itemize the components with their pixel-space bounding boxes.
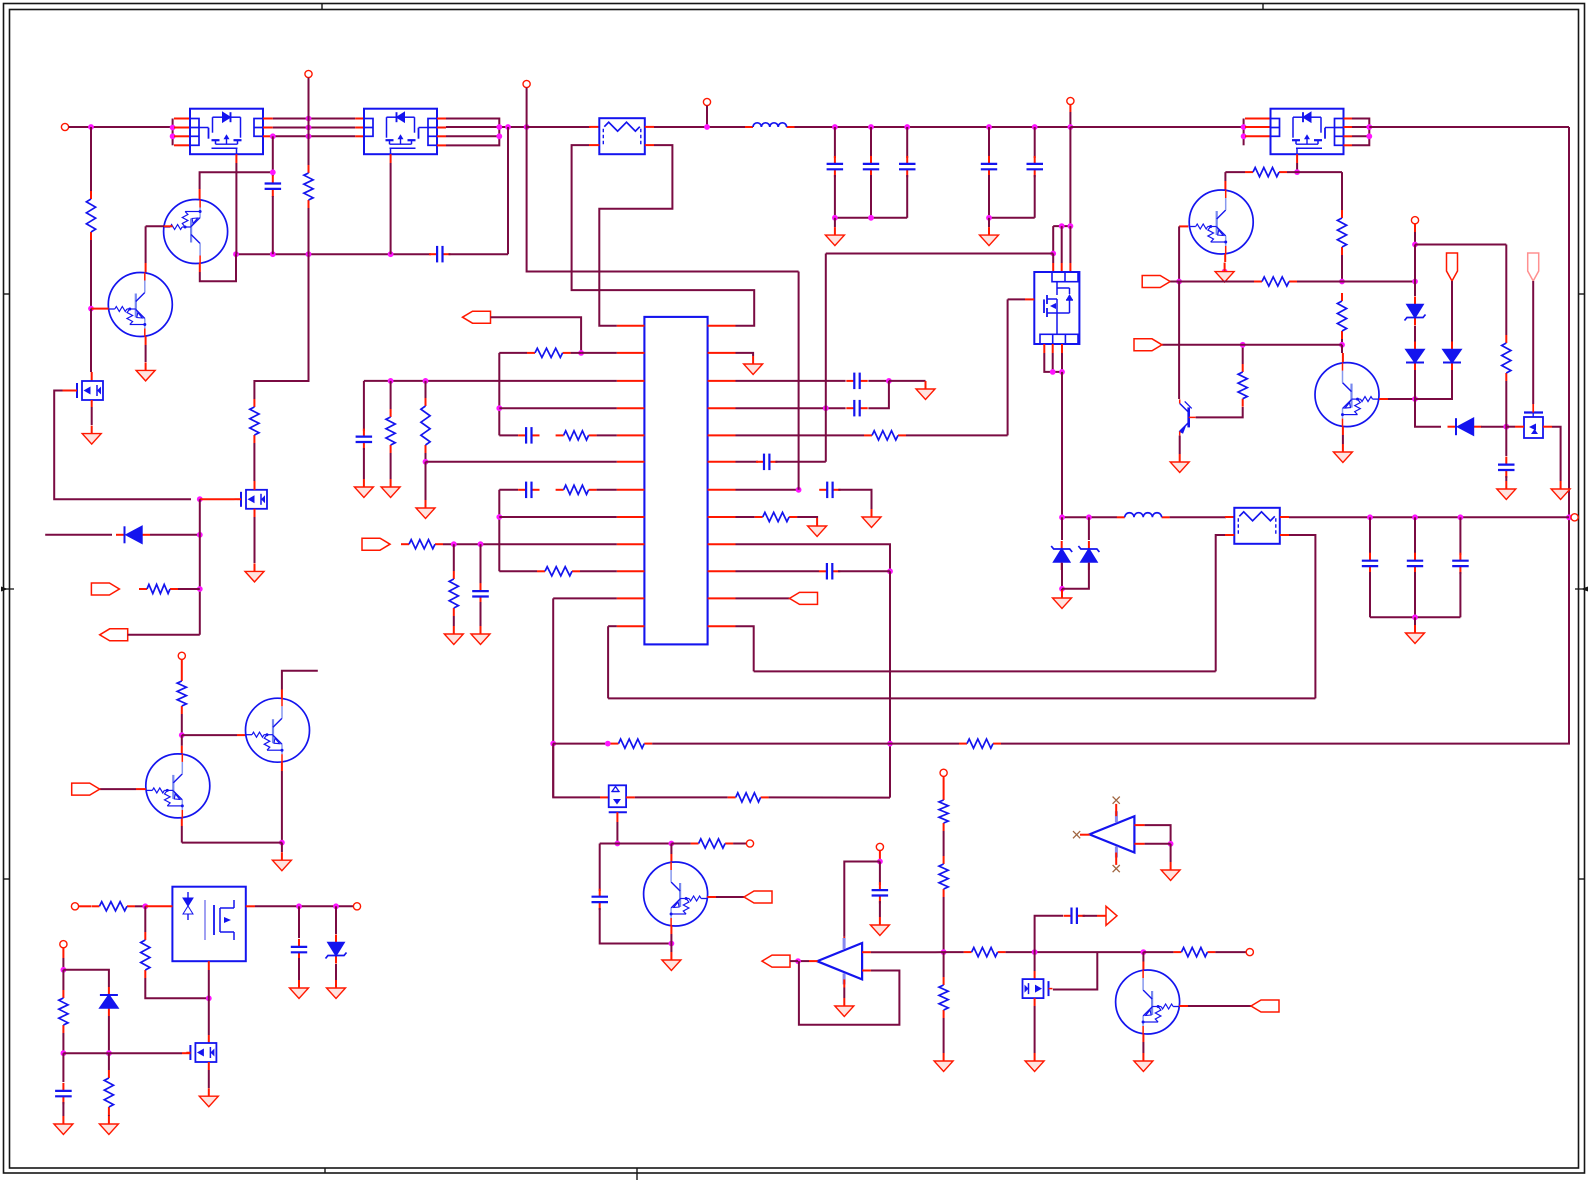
wire 425.5 col b — [425, 453, 427, 462]
junction 308.5,254.2 — [306, 251, 312, 257]
resistor R425 — [421, 398, 430, 453]
U4 right pin stubs — [1344, 118, 1353, 120]
wire 707 term down — [706, 106, 708, 127]
border tick bottom 2 — [636, 1168, 638, 1180]
wire 308 down then left to 254.4,381 — [254, 254, 308, 399]
connector left-point y598 — [790, 592, 818, 604]
Q6 collector stub — [1142, 962, 1144, 971]
IC U6 left pin stub y352 — [617, 352, 645, 354]
capacitor Co2 — [1452, 553, 1469, 574]
capacitor C462R — [756, 454, 777, 471]
OP2 in+ stub — [1134, 824, 1144, 826]
wire pin435R a — [736, 434, 865, 436]
wire 63-109 branch — [63, 970, 109, 987]
junction 499.3,517 — [496, 514, 502, 520]
wire pin598L — [553, 597, 617, 599]
wire R3b to dots — [443, 543, 617, 545]
zener D7 — [1051, 541, 1072, 570]
ground zeners — [1053, 590, 1072, 609]
wire capbank2-1 bottom — [1034, 175, 1036, 218]
junction 1415,244.5 — [1412, 242, 1418, 248]
M4 source stub — [1034, 998, 1036, 1006]
wire D5 to dot — [1481, 426, 1506, 428]
Q8 emitter stub — [1224, 254, 1226, 262]
junction 1460.4,517.3 — [1458, 514, 1464, 520]
stub under terminal 181.8 — [181, 659, 183, 673]
IC U6 left pin stub y544 — [617, 543, 645, 545]
wire U4 right row127 — [1352, 126, 1369, 128]
wire 363.9 col b — [363, 448, 365, 479]
wire U2 row118 to bracket — [446, 119, 499, 146]
diode D6 — [100, 987, 118, 1016]
U5 top pin stubs — [1052, 263, 1054, 272]
junction 825.8,408.2 — [823, 405, 829, 411]
wire 842 down to ground — [281, 843, 283, 852]
wire R24 to dot — [1341, 255, 1343, 282]
junction 308.5,118.5 — [306, 116, 312, 122]
resistor R390 — [386, 409, 395, 453]
stub 63 terminal — [62, 948, 64, 958]
U5 bottom pin stubs — [1043, 344, 1045, 353]
U4 source stub bottom — [1296, 154, 1298, 163]
capacitor C880 — [872, 882, 889, 903]
resistor R14 — [91, 902, 135, 911]
U1 right pin stubs — [263, 118, 273, 120]
junction 1034.6,952.1 — [1032, 949, 1038, 955]
capbank2 bottom rail — [989, 217, 1035, 219]
IC U6 left pin stub y380 — [617, 380, 645, 382]
ground Q2 emitter — [136, 362, 155, 381]
transistor Q6 — [1116, 970, 1180, 1034]
junction 607.8,743.6 — [605, 741, 611, 747]
wire T2 bl to bus671 — [1216, 535, 1225, 671]
wire y281 rail b — [1297, 281, 1415, 283]
Q7 emitter stub — [1342, 427, 1344, 435]
wire 499 vert A — [498, 353, 500, 436]
wire U4 source down — [1296, 163, 1298, 172]
wire 299 down — [298, 906, 300, 938]
ground OP1 — [835, 998, 854, 1017]
IC U6 right pin stub y626 — [708, 625, 736, 627]
U1 left pin stubs — [174, 118, 190, 120]
M2 source stub — [208, 1062, 210, 1070]
junction 798,961.1 — [795, 958, 801, 964]
wire J-b down — [1532, 281, 1534, 404]
bus to U4 bracket — [1070, 126, 1243, 128]
junction 907.2,127 — [904, 124, 910, 130]
M1 drain stub top — [254, 481, 256, 490]
terminal 880,847 — [876, 843, 883, 850]
wire capbank2-0 bottom — [988, 175, 990, 218]
ground 425.5 — [416, 500, 435, 519]
Q6 base stub — [1179, 1005, 1188, 1007]
M6 protection device top plate — [1524, 411, 1543, 413]
OP2 bottom stub — [1115, 853, 1117, 865]
resistor R30 — [959, 739, 1001, 748]
bus L1 to caps — [795, 126, 1071, 128]
wire 336 to gnd — [335, 964, 337, 980]
junction 281.9,842.6 — [279, 840, 285, 846]
junction 453.8,544.2 — [451, 541, 457, 547]
terminal opto left — [71, 903, 78, 910]
M5 drain stub — [91, 372, 93, 381]
wire C381R to dot — [868, 380, 889, 382]
wire 952 b — [944, 951, 964, 953]
wire 825.8 vert — [825, 254, 827, 462]
ground Q5 — [662, 952, 681, 971]
wire 526 term down — [526, 88, 528, 127]
junction 499.3,127 — [496, 124, 502, 130]
wire M6 right gnd — [1552, 427, 1561, 481]
wire R6 to pin435 — [597, 434, 617, 436]
resistor R4 — [449, 571, 458, 616]
wire capbank2-0 top — [988, 127, 990, 158]
junction 890,571.3 — [887, 568, 893, 574]
wire R34 to 1007 — [906, 434, 1008, 436]
wire 145 to 998 rail — [145, 978, 209, 998]
capacitor C599 — [592, 889, 609, 910]
resistor R19 — [939, 856, 948, 897]
junction 581.1,352.9 — [578, 350, 584, 356]
terminal at 308,74 — [305, 70, 312, 77]
junction 1179.1,281.5 — [1176, 279, 1182, 285]
Q3 collector stub — [281, 690, 283, 699]
wire 1415 e — [1415, 399, 1441, 427]
wire pin408R a — [736, 407, 846, 409]
optocoupler U3 internals — [183, 898, 193, 906]
wire R28 to dot — [1242, 345, 1244, 364]
IC U6 left pin stub y435 — [617, 434, 645, 436]
wire 1053 bottom — [1052, 353, 1054, 372]
zener D8 — [1078, 541, 1099, 570]
junction 1369.3,136.3 — [1366, 133, 1372, 139]
terminal J1 left input — [61, 123, 68, 130]
wire M2 source down — [208, 1070, 210, 1088]
wire outcap1 top — [1414, 517, 1416, 555]
wire opto right to terminal — [255, 905, 353, 907]
inductor L1 — [745, 123, 795, 127]
capacitor C on 254 rail — [429, 246, 450, 263]
capacitor C363 — [356, 429, 373, 450]
T1 bottom-right stub — [645, 144, 654, 146]
wire U4 right row136 — [1352, 135, 1369, 137]
junction 871,127 — [868, 124, 874, 130]
wire R22 to term — [1215, 951, 1246, 953]
U1 left bracket wire — [172, 119, 174, 146]
wire pin381L rail — [364, 380, 617, 382]
Q5 collector stub — [670, 854, 672, 863]
junction 834.9,127 — [832, 124, 838, 130]
wire rail 843 — [600, 843, 672, 845]
wire D1 left end — [45, 534, 112, 536]
transistor Q2 — [108, 273, 172, 337]
wire OP1 out to conn junction — [798, 960, 809, 962]
wire R3 to M1 drain — [253, 443, 255, 481]
wire 390.6 col b — [390, 453, 392, 479]
ground M1 source — [245, 563, 264, 582]
junction Q8 emitter gnd — [1222, 269, 1228, 275]
stub 880 term — [879, 851, 881, 862]
bus U2 to T1 — [527, 126, 591, 128]
wire Q6 collector — [1142, 952, 1144, 961]
M6 right stub — [1543, 426, 1552, 428]
diode D2 — [1406, 342, 1424, 371]
resistor R15 — [141, 932, 150, 978]
capacitor C490L — [518, 482, 539, 499]
wire y244 rail — [1415, 244, 1506, 246]
wire 952 to R22 — [1143, 951, 1173, 953]
wire 308 between rows — [308, 119, 310, 166]
wire Q9 emitter gnd — [1179, 436, 1181, 455]
wire R1 to Q2 base junction — [90, 240, 92, 309]
junction 508,127 — [505, 124, 511, 130]
terminal opto right — [353, 903, 360, 910]
opto left pin stub — [145, 905, 172, 907]
transistor Q1 — [164, 200, 228, 264]
opto bottom pin stub — [208, 961, 210, 970]
wire 425.5 col — [425, 381, 427, 398]
Q2 emitter stub — [145, 337, 147, 346]
wire U2 row136 to bracket — [446, 135, 499, 137]
ground OP2 — [1161, 862, 1180, 881]
junction 1242.7,344.8 — [1240, 342, 1246, 348]
ground Q8 — [1215, 263, 1234, 283]
connector right-point y344 — [1134, 339, 1162, 351]
wire Q7 coll link — [1341, 345, 1343, 353]
junction 1415,281.5 — [1412, 279, 1418, 285]
wire pin408L — [499, 407, 617, 409]
wire J-a down — [1451, 281, 1453, 342]
wire conn to junction 798 — [790, 960, 798, 962]
Q1 base stub — [146, 225, 164, 227]
border tick right 1 — [1579, 293, 1585, 295]
Q4 base stub — [136, 788, 146, 790]
ground 480.5 — [471, 626, 490, 645]
wire M4 gate loop — [1053, 952, 1097, 989]
terminal 944,773 — [940, 769, 947, 776]
resistor R10 — [728, 793, 769, 802]
Q4 collector stub — [181, 746, 183, 755]
resistor R7 — [556, 485, 597, 494]
wire U1-U2 pin row 136 — [273, 135, 355, 137]
OP1 power stub top — [843, 937, 845, 944]
wire outcap1 bottom — [1414, 572, 1416, 617]
junction 299,906.3 — [296, 903, 302, 909]
wire emitter rail 842 — [182, 842, 282, 844]
wire OP2 gnd stem — [1170, 844, 1172, 862]
border arrow left — [1, 587, 8, 592]
wire 1007 gate loop — [1007, 299, 1009, 435]
wire 363.9 col — [363, 381, 365, 431]
resistor R17 — [59, 990, 68, 1033]
wire y281 rail a — [1179, 281, 1254, 283]
wire U2 source down to 254 rail — [390, 163, 392, 254]
IC U6 right pin stub y571 — [708, 570, 736, 572]
ground 453.8 — [444, 626, 463, 645]
wire Q1 emitter loop — [200, 254, 236, 281]
wire pin353 corner — [499, 352, 527, 354]
outcap bottom rail — [1370, 616, 1460, 618]
capacitor Co0 — [1362, 553, 1378, 574]
wire 453.8 col — [453, 544, 455, 571]
wire 1053 corner — [1052, 226, 1054, 253]
wire y271 rail — [527, 127, 799, 272]
MOSFET M2 — [186, 1043, 216, 1062]
wire rail843 to R11 — [671, 843, 690, 845]
junction 1034.7,127 — [1032, 124, 1038, 130]
junction 1415,617.3 — [1412, 614, 1418, 620]
connector OUT left-point y635 — [100, 629, 128, 641]
wire M4 source gnd — [1034, 1006, 1036, 1053]
M3 gate-bar stub — [616, 812, 618, 822]
capbank2 gnd stem — [988, 218, 990, 227]
junction 1052.7,371.9 — [1050, 369, 1056, 375]
transistor Q7 — [1315, 363, 1379, 427]
wire 1415 d — [1414, 370, 1416, 399]
IC U6 right pin stub y380 — [708, 380, 736, 382]
wire 480.5 col b — [480, 602, 482, 626]
wire 1062 down to bus517 — [1061, 372, 1063, 517]
border tick top 1 — [321, 4, 323, 10]
wire R8 to pin — [580, 570, 617, 572]
ground 336 — [327, 980, 346, 999]
junction 1053.2,253.5 — [1050, 251, 1056, 257]
T2 bottom-left stub — [1225, 534, 1234, 536]
bus L2 to T2 — [1170, 516, 1226, 518]
wire R23 to dot — [1505, 381, 1507, 427]
wire conn281 to dot — [1170, 281, 1179, 283]
outcap gnd stem — [1414, 617, 1416, 625]
wire M3 gate down — [616, 822, 618, 844]
connector tri-out — [1106, 906, 1117, 925]
wire pin626L — [608, 625, 617, 627]
M5 gate wire — [63, 390, 78, 392]
capacitor Cb1-0 — [827, 156, 844, 177]
capacitor Cb2-1 — [1027, 156, 1044, 177]
wire Q4 collector up — [181, 735, 183, 746]
terminal 707,102 — [703, 98, 710, 105]
MOSFET M3 box — [609, 785, 626, 807]
wire Q5 gnd stem — [670, 944, 672, 953]
junction 671.4,843.5 — [669, 841, 675, 847]
wire 199.8 vertical — [199, 499, 201, 635]
M2 drain stub — [208, 1035, 210, 1043]
resistor R9 — [611, 739, 653, 748]
junction 1297.1,172.1 — [1294, 169, 1300, 175]
wire 299 cap to gnd — [298, 958, 300, 980]
OP1 in+ stub — [862, 951, 871, 953]
junction 199.8,589 — [197, 586, 203, 592]
M3 internals — [612, 787, 619, 792]
wire R31 to gnd — [797, 517, 817, 518]
wire 390.6 col — [390, 381, 392, 409]
wire pin598R — [736, 597, 790, 599]
wire Q2 emitter down — [145, 345, 147, 362]
resistor R28 — [1238, 364, 1247, 407]
IC U6 right pin stub y517 — [708, 516, 736, 518]
IC U6 right pin stub y408 — [708, 407, 736, 409]
ground M2 — [199, 1088, 218, 1107]
capacitor Co1 — [1407, 553, 1423, 574]
wire Q4 emitter link — [181, 826, 183, 843]
ground pin353R — [744, 356, 763, 375]
IC U6 right pin stub y544 — [708, 543, 736, 545]
junction 272.8,254.2 — [270, 251, 276, 257]
wire pin571L a — [499, 570, 537, 572]
no-connect X OP2 bottom — [1113, 865, 1120, 872]
T2 left stub — [1225, 516, 1234, 518]
wire R7 to pin — [597, 489, 617, 491]
capacitor C480 — [472, 583, 489, 604]
connector left-point y317 — [463, 311, 491, 323]
ground capbank2 — [980, 227, 999, 246]
resistor R3 at 254 col — [250, 399, 259, 443]
wire OP1 feedback — [799, 961, 900, 1025]
wire 63 down — [62, 970, 64, 990]
U4 left pin stubs — [1245, 118, 1271, 120]
junction 989,217.8 — [986, 215, 992, 221]
border tick top 2 — [1262, 4, 1264, 10]
junction 553.2,743.6 — [550, 741, 556, 747]
wire Q1 base col down — [145, 226, 147, 263]
wire R11 to term — [733, 843, 746, 845]
wire R14 to dot — [135, 905, 145, 907]
wire T1R chain to pin326L — [599, 145, 672, 326]
connector left-point Q5 base — [744, 891, 772, 903]
ground 880 — [870, 917, 889, 936]
M5 source stub — [91, 400, 93, 407]
wire conn635 to 199.8 — [128, 634, 200, 636]
junction 236,254.2 — [233, 251, 239, 257]
ground 1506 — [1497, 481, 1516, 500]
border arrow right — [1581, 587, 1588, 592]
junction 181.8,735.1 — [179, 732, 185, 738]
bus T2 to caps — [1289, 516, 1569, 518]
ground 63 — [54, 1116, 73, 1135]
IC U6 right pin stub y352 — [708, 352, 736, 354]
Q8 collector stub — [1224, 181, 1226, 190]
junction U1 left 136 — [170, 133, 176, 139]
wire pin517R a — [736, 516, 755, 518]
wire pin353R gnd stem — [736, 353, 754, 356]
dual-MOSFET package U4 — [1271, 109, 1344, 155]
wire Q9 base loop — [1196, 407, 1243, 417]
ground outcaps — [1406, 625, 1425, 644]
junction 108.9,1053.2 — [106, 1050, 112, 1056]
terminal 526,84 — [523, 80, 530, 87]
wire 952 c — [1006, 951, 1144, 953]
wire 608.1 vert — [607, 626, 609, 698]
wire pin462L rail — [426, 461, 617, 463]
opto right pin stub — [246, 905, 255, 907]
junction 1569,517.3 — [1566, 514, 1572, 520]
Q8 base stub — [1179, 225, 1188, 227]
wire C4 to 254 rail — [272, 196, 274, 254]
wire y172 rail b — [1287, 171, 1342, 173]
OP1 power stub bottom — [843, 979, 845, 987]
wire zener2 bottom — [1062, 563, 1089, 589]
wire outcap0 bottom — [1369, 572, 1371, 617]
wire U2 row127 to bus — [446, 126, 527, 128]
capacitor Cb1-1 — [863, 156, 879, 177]
transformer T1 — [599, 118, 645, 154]
wire Q5 base to conn — [716, 896, 744, 898]
wire 63 to dot — [62, 958, 64, 970]
connector right-point y281 — [1142, 276, 1170, 288]
resistor R20 — [964, 948, 1006, 957]
IC U6 left pin stub y489 — [617, 489, 645, 491]
wire Q5 emitter down — [670, 934, 672, 944]
